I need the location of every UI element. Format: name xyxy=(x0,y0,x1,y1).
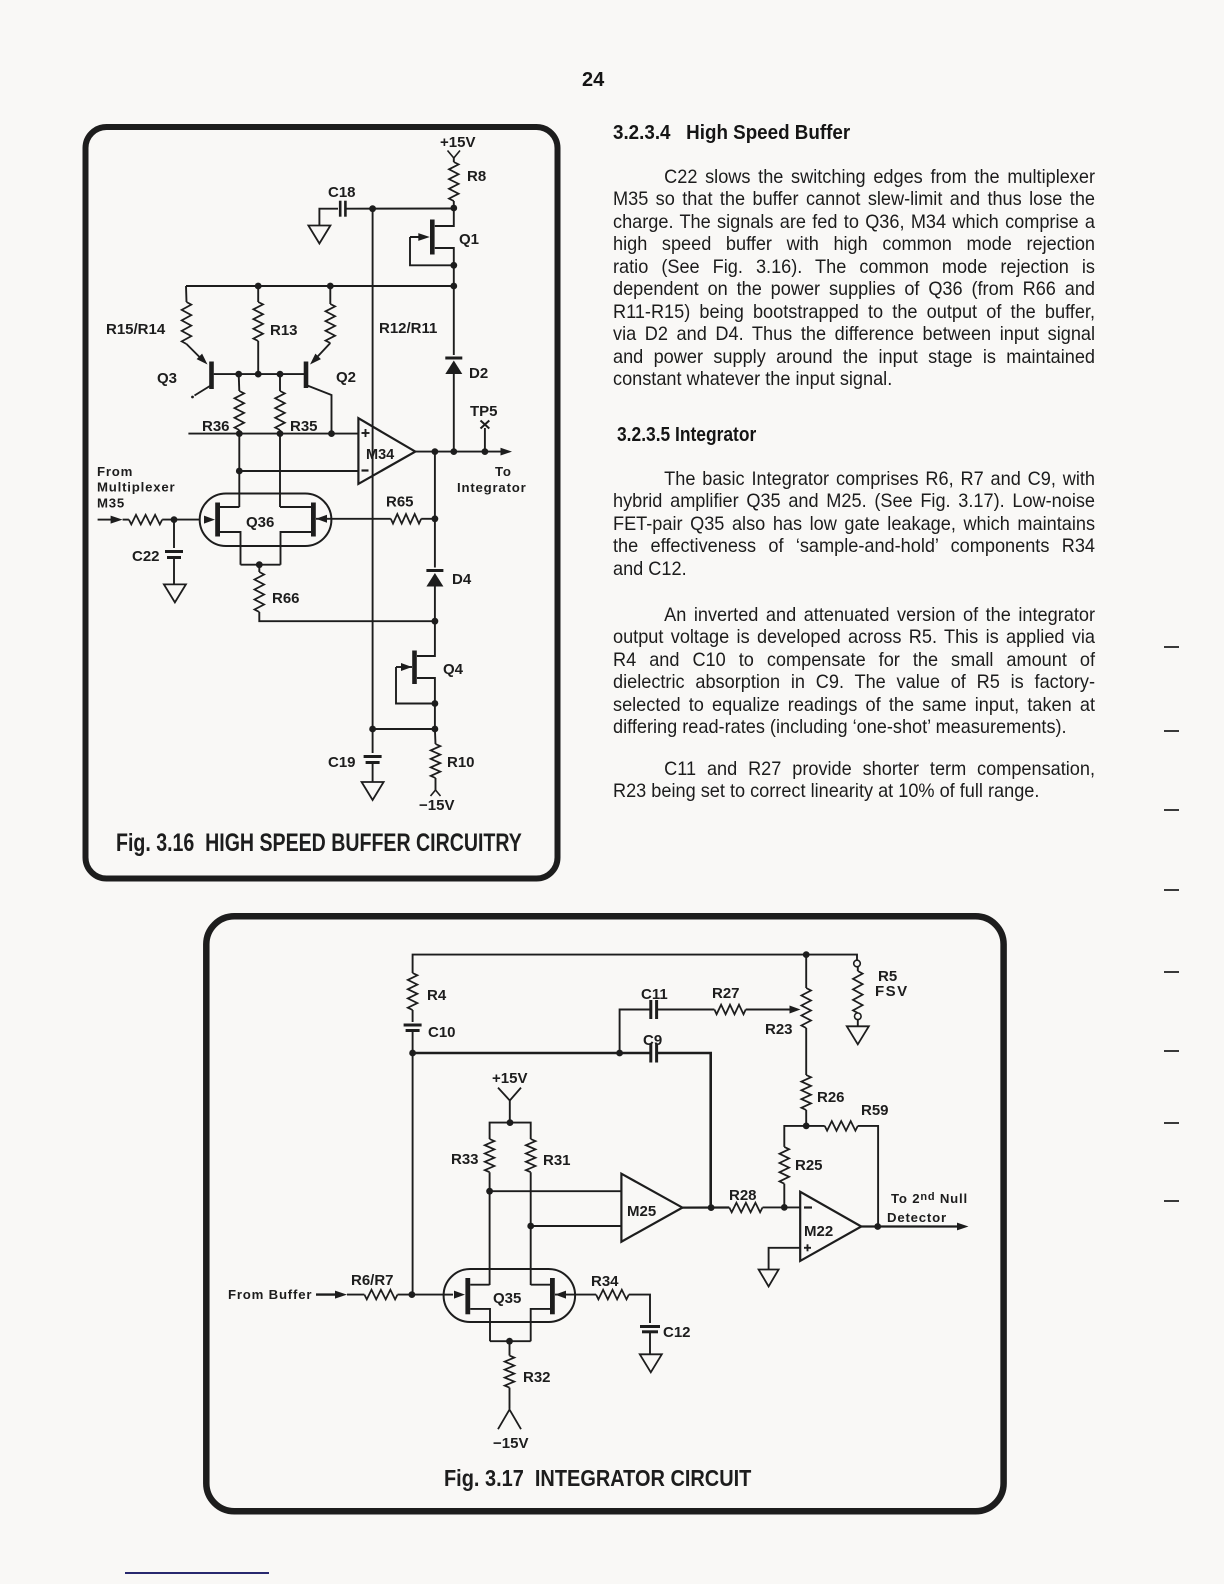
svg-text:C9: C9 xyxy=(643,1032,662,1049)
svg-text:From: From xyxy=(97,464,133,479)
svg-text:Multiplexer: Multiplexer xyxy=(97,480,175,495)
svg-text:Fig. 3.17 INTEGRATOR CIRCUIT: Fig. 3.17 INTEGRATOR CIRCUIT xyxy=(444,1466,751,1492)
svg-text:R34: R34 xyxy=(591,1273,619,1290)
svg-text:Q36: Q36 xyxy=(246,514,274,531)
svg-text:+15V: +15V xyxy=(440,134,475,151)
svg-text:R6/R7: R6/R7 xyxy=(351,1272,394,1289)
svg-text:R8: R8 xyxy=(467,168,486,185)
svg-text:R32: R32 xyxy=(523,1369,551,1386)
svg-text:R10: R10 xyxy=(447,754,475,771)
svg-text:Q4: Q4 xyxy=(443,661,464,678)
svg-text:−15V: −15V xyxy=(493,1435,528,1452)
svg-text:D4: D4 xyxy=(452,571,472,588)
svg-text:TP5: TP5 xyxy=(470,403,498,420)
svg-text:R27: R27 xyxy=(712,985,740,1002)
svg-text:M35: M35 xyxy=(97,496,125,511)
svg-text:+15V: +15V xyxy=(492,1070,527,1087)
svg-text:C22: C22 xyxy=(132,548,160,565)
svg-text:Q2: Q2 xyxy=(336,369,356,386)
svg-text:C19: C19 xyxy=(328,754,356,771)
svg-text:C11: C11 xyxy=(641,986,668,1003)
svg-text:From Buffer: From Buffer xyxy=(228,1287,312,1302)
svg-text:−15V: −15V xyxy=(419,797,454,814)
svg-text:R23: R23 xyxy=(765,1021,793,1038)
svg-text:M34: M34 xyxy=(366,447,394,463)
svg-text:R13: R13 xyxy=(270,322,298,339)
svg-text:Q1: Q1 xyxy=(459,231,479,248)
svg-text:R31: R31 xyxy=(543,1152,571,1169)
svg-text:R66: R66 xyxy=(272,590,300,607)
svg-text:To: To xyxy=(495,464,512,479)
svg-text:R59: R59 xyxy=(861,1102,889,1119)
svg-text:D2: D2 xyxy=(469,365,488,382)
svg-text:R28: R28 xyxy=(729,1187,757,1204)
svg-text:FSV: FSV xyxy=(875,983,909,1000)
svg-text:Q3: Q3 xyxy=(157,370,177,387)
svg-text:R33: R33 xyxy=(451,1151,479,1168)
svg-text:M22: M22 xyxy=(804,1223,833,1240)
svg-text:C18: C18 xyxy=(328,184,356,201)
svg-text:Q35: Q35 xyxy=(493,1290,521,1307)
svg-text:M25: M25 xyxy=(627,1203,656,1220)
svg-text:R15/R14: R15/R14 xyxy=(106,321,166,338)
svg-text:C12: C12 xyxy=(663,1324,691,1341)
svg-text:R12/R11: R12/R11 xyxy=(379,320,437,337)
svg-text:R25: R25 xyxy=(795,1157,823,1174)
svg-text:R26: R26 xyxy=(817,1089,845,1106)
svg-text:R4: R4 xyxy=(427,987,447,1004)
svg-text:To 2nd Null: To 2nd Null xyxy=(891,1191,968,1206)
svg-text:Detector: Detector xyxy=(887,1210,947,1225)
svg-text:Fig. 3.16 HIGH SPEED BUFFER C: Fig. 3.16 HIGH SPEED BUFFER CIRCUITRY xyxy=(116,829,522,857)
svg-text:C10: C10 xyxy=(428,1024,456,1041)
svg-text:Integrator: Integrator xyxy=(457,480,527,495)
svg-text:R36: R36 xyxy=(202,418,230,435)
svg-text:R35: R35 xyxy=(290,418,318,435)
svg-text:R65: R65 xyxy=(386,494,414,511)
